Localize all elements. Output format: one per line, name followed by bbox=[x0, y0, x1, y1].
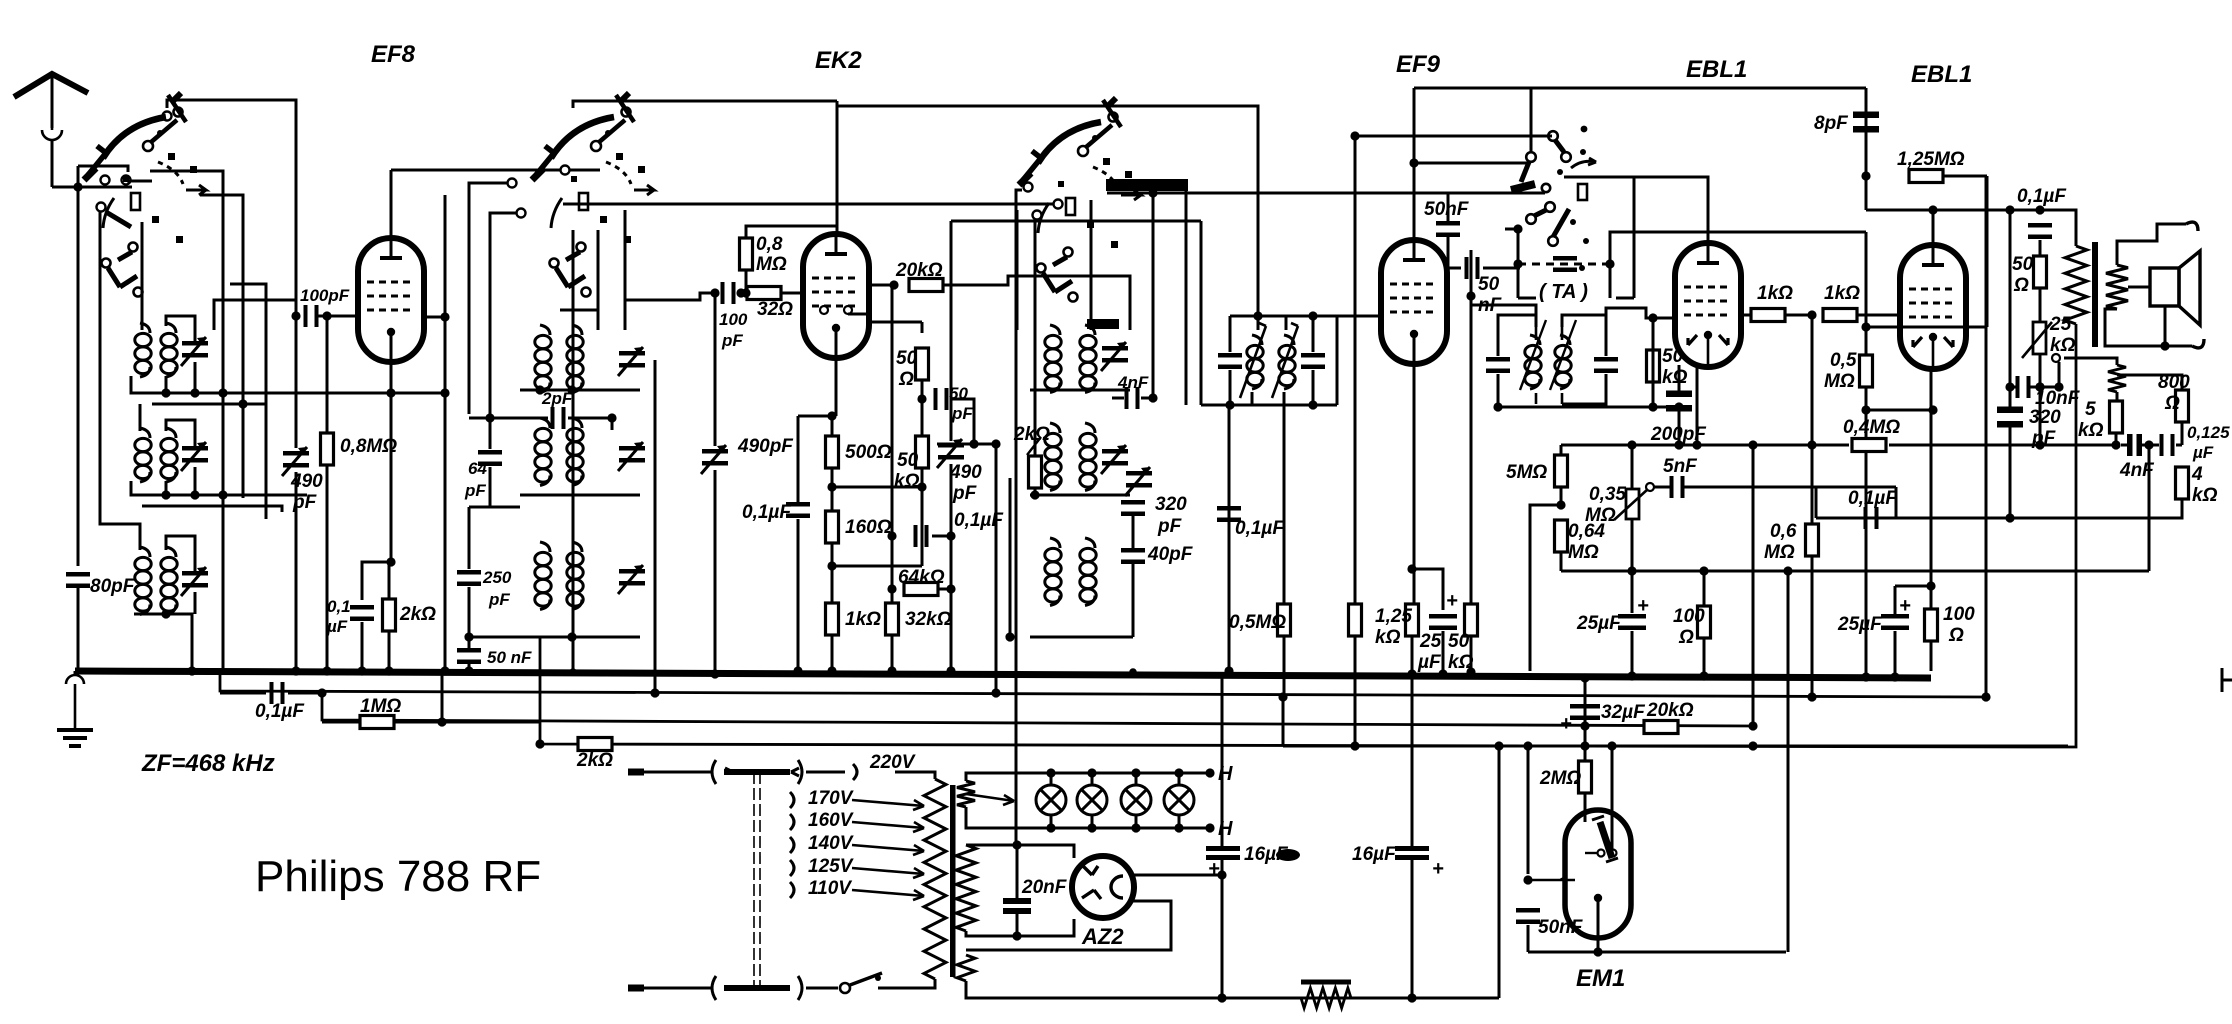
wire EBL1 cathode bbox=[1696, 367, 1699, 445]
resistor 5MΩ bbox=[1555, 455, 1568, 487]
resistor 1kΩ bbox=[1751, 309, 1785, 322]
svg-text:EF8: EF8 bbox=[371, 41, 416, 68]
wire bbox=[1050, 773, 1053, 786]
wire bbox=[2009, 210, 2012, 387]
wire bbox=[644, 987, 712, 990]
junction bbox=[827, 561, 836, 570]
coil T1 secondary bbox=[1279, 335, 1295, 389]
wire bbox=[200, 195, 243, 498]
svg-text:MΩ: MΩ bbox=[756, 254, 787, 275]
junction bbox=[1513, 259, 1522, 268]
wire bbox=[166, 536, 195, 571]
wire feedback riser bbox=[2148, 445, 2151, 571]
junction bbox=[1046, 823, 1055, 832]
wire bbox=[295, 472, 298, 671]
junction bbox=[1627, 566, 1636, 575]
junction bbox=[827, 411, 836, 420]
svg-text:5: 5 bbox=[2085, 399, 2096, 420]
junction bbox=[1174, 823, 1183, 832]
junction bbox=[440, 312, 449, 321]
junction bbox=[736, 288, 745, 297]
wire bbox=[2051, 210, 2076, 246]
wire bbox=[468, 507, 471, 569]
junction bbox=[190, 388, 199, 397]
tap 125V bbox=[790, 860, 794, 876]
junction bbox=[1928, 405, 1937, 414]
wire EK2 grid link bbox=[625, 293, 715, 330]
capacitor bbox=[1436, 221, 1460, 237]
svg-text:25µF: 25µF bbox=[1576, 613, 1622, 634]
wire bbox=[878, 987, 882, 990]
svg-text:1kΩ: 1kΩ bbox=[845, 609, 881, 630]
capacitor 16uF bbox=[1206, 846, 1240, 860]
svg-text:50: 50 bbox=[897, 450, 919, 471]
junction bbox=[1783, 566, 1792, 575]
wire bbox=[134, 614, 192, 671]
capacitor 50nF bbox=[1516, 908, 1540, 924]
wire bbox=[806, 987, 838, 990]
wire bbox=[1866, 409, 1933, 412]
wire bbox=[127, 180, 152, 183]
svg-text:pF: pF bbox=[1157, 516, 1183, 537]
junction bbox=[1648, 313, 1657, 322]
resistor field coil bbox=[1301, 980, 1351, 985]
wire bbox=[214, 300, 296, 330]
svg-text:+: + bbox=[1446, 590, 1458, 612]
coil L3b bbox=[161, 547, 177, 615]
TA pickup box bbox=[1518, 177, 1634, 298]
wire bbox=[2039, 354, 2042, 387]
svg-text:25: 25 bbox=[2049, 314, 2072, 335]
wire bbox=[388, 562, 391, 598]
wire pot wiper bbox=[2058, 362, 2061, 387]
svg-text:Ω: Ω bbox=[2013, 275, 2029, 296]
wire bbox=[1442, 631, 1445, 671]
resistor 20kΩ bbox=[909, 279, 943, 292]
wire bbox=[1703, 571, 1706, 606]
junction bbox=[1494, 741, 1503, 750]
junction bbox=[440, 666, 449, 675]
coil L9b bbox=[1080, 538, 1096, 606]
svg-text:( TA ): ( TA ) bbox=[1539, 281, 1588, 303]
plug connector bottom bbox=[712, 976, 802, 1000]
wire bbox=[1282, 697, 1285, 746]
junction bbox=[2144, 440, 2153, 449]
wire bbox=[597, 230, 600, 330]
dial lamp bbox=[1077, 785, 1107, 815]
wire bbox=[1943, 175, 1987, 178]
svg-text:2MΩ: 2MΩ bbox=[1539, 768, 1581, 789]
wire bbox=[1411, 860, 1414, 998]
wire bbox=[1030, 494, 1130, 497]
svg-text:32kΩ: 32kΩ bbox=[905, 609, 952, 630]
wire bbox=[1752, 445, 1755, 726]
junction bbox=[1012, 931, 1021, 940]
junction bbox=[2035, 382, 2044, 391]
resistor 0.8MΩ bbox=[321, 433, 334, 465]
wire bbox=[644, 771, 712, 774]
edge mark bbox=[2222, 668, 2232, 692]
svg-text:ZF=468 kHz: ZF=468 kHz bbox=[141, 750, 275, 777]
svg-text:0,6: 0,6 bbox=[1770, 521, 1797, 542]
svg-text:EK2: EK2 bbox=[815, 47, 862, 74]
wire osc link row bbox=[951, 220, 1201, 223]
svg-text:pF: pF bbox=[952, 483, 978, 504]
capacitor 80pF bbox=[66, 572, 90, 588]
capacitor 0.1uF bbox=[1217, 506, 1241, 522]
svg-text:100pF: 100pF bbox=[300, 286, 350, 305]
mains switch bbox=[840, 973, 882, 993]
ground bus bbox=[75, 671, 1931, 678]
svg-text:80pF: 80pF bbox=[90, 576, 136, 597]
svg-text:µF: µF bbox=[326, 617, 348, 636]
wire bbox=[1483, 267, 1520, 270]
junction bbox=[1493, 402, 1502, 411]
wire bbox=[950, 589, 953, 671]
wire bbox=[322, 721, 360, 724]
junction bbox=[1807, 440, 1816, 449]
wire G3 row bbox=[1866, 326, 1987, 329]
wire right links bbox=[150, 171, 223, 671]
wire grid in bbox=[1900, 317, 1903, 320]
wire bbox=[2116, 392, 2119, 401]
svg-text:5nF: 5nF bbox=[1663, 456, 1698, 477]
svg-text:4nF: 4nF bbox=[2119, 460, 2155, 481]
junction bbox=[1308, 311, 1317, 320]
capacitor 8pF bbox=[1853, 112, 1879, 133]
junction bbox=[73, 182, 82, 191]
svg-text:kΩ: kΩ bbox=[1662, 367, 1688, 388]
wire T2 sec to EBL1 grid bbox=[1606, 308, 1676, 318]
svg-text:EBL1: EBL1 bbox=[1686, 56, 1747, 83]
wire bbox=[1178, 815, 1181, 828]
capacitor 50nF bbox=[457, 648, 481, 664]
svg-text:1MΩ: 1MΩ bbox=[360, 696, 401, 717]
wire T2 top to EF9 plate bbox=[1471, 250, 1536, 315]
junction bbox=[1438, 669, 1447, 678]
wire bbox=[831, 468, 834, 514]
wire bbox=[1894, 586, 1897, 614]
tap arrows bbox=[852, 800, 924, 810]
resistor 1MΩ bbox=[360, 716, 394, 729]
wire bbox=[1257, 316, 1260, 330]
junction bbox=[161, 388, 170, 397]
junction bbox=[1556, 500, 1565, 509]
svg-text:140V: 140V bbox=[808, 833, 854, 854]
capacitor T2 bbox=[1594, 357, 1618, 373]
svg-text:0,8MΩ: 0,8MΩ bbox=[340, 436, 397, 457]
junction bbox=[384, 666, 393, 675]
core arrows T1 bbox=[1240, 323, 1298, 398]
wire bbox=[806, 771, 845, 774]
wire EK2 plate bbox=[869, 284, 894, 287]
wire bbox=[832, 486, 922, 489]
wire bbox=[1034, 488, 1037, 495]
junction bbox=[1217, 993, 1226, 1002]
svg-text:Ω: Ω bbox=[898, 369, 914, 390]
svg-text:pF: pF bbox=[488, 590, 510, 609]
wire bbox=[1811, 556, 1814, 697]
tube EBL1 output bbox=[1900, 245, 1966, 369]
wire frame top bbox=[167, 100, 296, 316]
junction bbox=[386, 557, 395, 566]
svg-text:Philips 788 RF: Philips 788 RF bbox=[255, 852, 541, 901]
wire bbox=[560, 310, 598, 330]
junction bbox=[567, 385, 576, 394]
svg-text:EM1: EM1 bbox=[1576, 965, 1625, 992]
wire bbox=[1283, 392, 1286, 405]
wire bbox=[1312, 370, 1315, 405]
svg-text:+: + bbox=[1432, 858, 1444, 880]
wire bbox=[921, 399, 924, 437]
junction bbox=[1692, 440, 1701, 449]
junction bbox=[1861, 322, 1870, 331]
capacitor 0.1uF bbox=[2028, 223, 2052, 239]
wire bbox=[1610, 232, 1866, 264]
wire bbox=[1030, 636, 1133, 639]
wire bbox=[2030, 386, 2059, 389]
coil L5b bbox=[567, 418, 583, 486]
wire bbox=[326, 465, 329, 671]
svg-text:160Ω: 160Ω bbox=[845, 517, 892, 538]
capacitor bbox=[1465, 257, 1480, 279]
resistor 50Ω bbox=[2034, 256, 2047, 288]
wire bbox=[1135, 773, 1138, 786]
wire bbox=[1090, 200, 1093, 324]
svg-text:AZ2: AZ2 bbox=[1081, 924, 1124, 949]
wire EBL1b plate bbox=[1932, 210, 1935, 245]
wire bbox=[131, 376, 445, 393]
junction bbox=[1861, 672, 1870, 681]
junction bbox=[1030, 490, 1039, 499]
wire bbox=[2039, 240, 2042, 256]
svg-text:2pF: 2pF bbox=[541, 389, 573, 408]
wire heater rail bbox=[220, 674, 1986, 697]
wire bbox=[1631, 631, 1634, 674]
wire bbox=[797, 519, 800, 671]
svg-text:kΩ: kΩ bbox=[1375, 627, 1401, 648]
junction bbox=[1580, 741, 1589, 750]
wire bbox=[1009, 478, 1012, 637]
junction bbox=[357, 666, 366, 675]
resistor 50Ω bbox=[916, 348, 929, 380]
junction bbox=[1005, 632, 1014, 641]
potentiometer 0.35MΩ bbox=[1614, 483, 1654, 520]
junction bbox=[991, 688, 1000, 697]
wire bbox=[654, 360, 657, 693]
terminal bbox=[1054, 200, 1063, 209]
coil L7a bbox=[1045, 325, 1061, 393]
wire bbox=[1498, 746, 1501, 998]
wire bbox=[100, 212, 133, 524]
wire bbox=[141, 222, 144, 330]
capacitor 0.1uF bbox=[350, 605, 374, 621]
wire bbox=[490, 213, 516, 449]
svg-text:0,5: 0,5 bbox=[1830, 350, 1857, 371]
junction bbox=[2160, 341, 2169, 350]
resistor 2MΩ bbox=[1579, 761, 1592, 793]
wire bbox=[1561, 570, 2149, 573]
svg-text:2kΩ: 2kΩ bbox=[399, 604, 436, 625]
phono switch bbox=[1511, 88, 1596, 271]
junction bbox=[161, 490, 170, 499]
svg-text:100: 100 bbox=[1943, 604, 1975, 625]
wire bbox=[1652, 318, 1655, 350]
wire bbox=[51, 140, 54, 187]
plug connector top bbox=[712, 760, 802, 784]
wire bbox=[1200, 221, 1203, 405]
wire bbox=[230, 284, 266, 519]
wire bbox=[2009, 425, 2012, 518]
capacitor 64pF bbox=[478, 450, 502, 466]
resistor 64kΩ bbox=[904, 583, 938, 596]
svg-text:+: + bbox=[1899, 595, 1911, 617]
svg-text:50 nF: 50 nF bbox=[487, 648, 532, 667]
junction bbox=[946, 531, 955, 540]
resistor 100Ω bbox=[1925, 609, 1938, 641]
capacitor 50pF bbox=[934, 388, 949, 410]
junction bbox=[650, 688, 659, 697]
wire bbox=[798, 415, 836, 418]
junction bbox=[567, 632, 576, 641]
svg-text:20nF: 20nF bbox=[1021, 877, 1068, 898]
wire EK2 top bbox=[836, 101, 839, 236]
wire bbox=[318, 315, 358, 318]
svg-text:490: 490 bbox=[949, 462, 982, 483]
wire bbox=[1283, 636, 1286, 697]
svg-text:2kΩ: 2kΩ bbox=[1013, 424, 1050, 445]
variable capacitor 490pF bbox=[282, 447, 309, 476]
junction bbox=[710, 669, 719, 678]
variable capacitor tuning bbox=[181, 442, 208, 471]
wire below AZ2 bbox=[966, 901, 1171, 950]
wire bbox=[1811, 445, 1814, 524]
svg-text:0,4MΩ: 0,4MΩ bbox=[1843, 417, 1900, 438]
wire bbox=[1527, 746, 1530, 874]
wire bbox=[1866, 209, 2051, 212]
wire AVC rail 2 bbox=[540, 324, 2076, 747]
junction bbox=[485, 413, 494, 422]
wire bbox=[1132, 516, 1135, 548]
variable capacitor padder bbox=[618, 565, 645, 594]
wire bbox=[194, 362, 197, 393]
wire bbox=[1611, 746, 1614, 843]
wire bbox=[966, 773, 1035, 781]
output transformer core bbox=[2092, 242, 2098, 347]
wire bbox=[568, 417, 612, 420]
svg-text:0,1µF: 0,1µF bbox=[1848, 488, 1898, 509]
wire bbox=[220, 692, 266, 695]
svg-text:32Ω: 32Ω bbox=[757, 299, 793, 320]
wire bbox=[1354, 136, 1357, 604]
junction bbox=[2054, 382, 2063, 391]
svg-text:0,125: 0,125 bbox=[2187, 423, 2230, 442]
variable capacitor bbox=[1101, 445, 1128, 474]
wire 220V into winding bbox=[895, 771, 930, 774]
wire bbox=[166, 316, 195, 341]
resistor 1.25MΩ bbox=[1909, 170, 1943, 183]
wire bbox=[1016, 845, 1019, 898]
junction bbox=[1699, 566, 1708, 575]
ground symbol bbox=[57, 675, 93, 746]
capacitor 100pF grid bbox=[304, 305, 319, 327]
resistor bbox=[1301, 988, 1351, 1008]
wire bbox=[1135, 815, 1138, 828]
junction bbox=[1407, 669, 1416, 678]
terminal bbox=[97, 203, 106, 212]
wire voice coil bbox=[2128, 286, 2150, 289]
svg-text:0,1µF: 0,1µF bbox=[742, 502, 792, 523]
wire bbox=[1283, 405, 1286, 604]
svg-text:100: 100 bbox=[719, 310, 748, 329]
wire bbox=[77, 588, 80, 671]
wire bbox=[1185, 191, 1188, 405]
terminal bbox=[517, 209, 526, 218]
resistor 2kΩ bbox=[1029, 456, 1042, 488]
wire bbox=[1498, 315, 1536, 356]
winding bbox=[956, 845, 976, 931]
junction bbox=[827, 482, 836, 491]
wire bbox=[1560, 552, 1563, 571]
coil L3a bbox=[135, 547, 151, 615]
capacitor 10nF bbox=[2016, 376, 2031, 398]
wire bbox=[1631, 571, 1634, 613]
junction bbox=[969, 439, 978, 448]
wire bbox=[2164, 306, 2167, 346]
junction bbox=[1129, 668, 1137, 676]
IF transformer T1 top row bbox=[1230, 315, 1313, 318]
svg-text:pF: pF bbox=[464, 481, 486, 500]
junction bbox=[569, 668, 577, 676]
wire bbox=[1112, 397, 1124, 400]
coil L4a bbox=[535, 325, 551, 393]
svg-text:kΩ: kΩ bbox=[2192, 485, 2218, 506]
svg-text:Ω: Ω bbox=[2164, 393, 2180, 414]
wire bbox=[1470, 268, 1473, 296]
junction bbox=[1087, 768, 1096, 777]
resistor 1.25kΩ bbox=[1406, 604, 1419, 636]
resistor 800Ω bbox=[2176, 390, 2189, 422]
wire phono feed bbox=[1355, 135, 1548, 138]
terminal H bbox=[1205, 823, 1214, 832]
svg-text:50: 50 bbox=[896, 348, 918, 369]
wire S2 contact row bbox=[563, 203, 1056, 206]
junction bbox=[464, 666, 473, 675]
capacitor 5nF bbox=[1670, 476, 1685, 498]
junction bbox=[710, 288, 719, 297]
heater tap arrow bbox=[966, 794, 1014, 805]
variable capacitor trimmer bbox=[181, 567, 208, 596]
wire bbox=[1283, 745, 2068, 748]
junction bbox=[946, 584, 955, 593]
capacitor 25uF bbox=[1429, 614, 1457, 630]
coil L2b bbox=[161, 428, 177, 482]
junction bbox=[1523, 741, 1532, 750]
junction bbox=[2005, 513, 2014, 522]
svg-text:H: H bbox=[1218, 763, 1233, 785]
junction bbox=[386, 388, 395, 397]
wire bbox=[1178, 773, 1181, 786]
wire bbox=[295, 316, 298, 448]
svg-text:50nF: 50nF bbox=[1538, 917, 1584, 938]
svg-text:170V: 170V bbox=[808, 788, 854, 809]
wire bbox=[1411, 678, 1414, 846]
band switch S3 bbox=[1019, 98, 1141, 302]
wire EF9 cathode bbox=[1413, 334, 1416, 604]
capacitor 320pF bbox=[1997, 407, 2023, 428]
wire bbox=[2117, 375, 2182, 390]
wire bbox=[468, 664, 471, 671]
